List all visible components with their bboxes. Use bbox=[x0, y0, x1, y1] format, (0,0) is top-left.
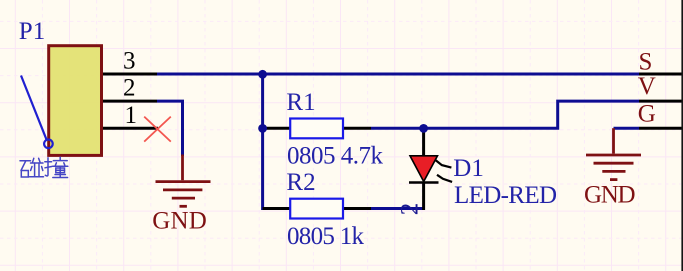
svg-text:P1: P1 bbox=[19, 18, 45, 45]
svg-text:D1: D1 bbox=[453, 155, 484, 182]
svg-text:3: 3 bbox=[123, 48, 136, 75]
svg-text:R1: R1 bbox=[286, 89, 315, 116]
svg-text:1: 1 bbox=[125, 102, 138, 129]
svg-text:2: 2 bbox=[397, 203, 424, 216]
svg-text:0805 4.7k: 0805 4.7k bbox=[287, 143, 384, 170]
svg-text:V: V bbox=[638, 73, 656, 100]
svg-text:GND: GND bbox=[152, 208, 207, 235]
svg-text:G: G bbox=[638, 101, 656, 128]
svg-text:0805 1k: 0805 1k bbox=[287, 223, 365, 250]
svg-text:LED-RED: LED-RED bbox=[454, 182, 557, 209]
svg-text:GND: GND bbox=[584, 181, 636, 208]
svg-text:S: S bbox=[639, 48, 653, 75]
svg-text:R2: R2 bbox=[286, 169, 315, 196]
svg-text:2: 2 bbox=[123, 75, 136, 102]
